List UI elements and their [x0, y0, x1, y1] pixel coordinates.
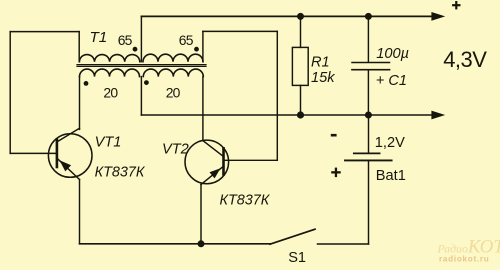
transformer T1 top-left winding (65 turns) [79, 55, 139, 62]
wire: VT1 base lead horizontal [10, 152, 56, 154]
junction dot: C1 top at + rail [365, 13, 372, 20]
junction dot: C1 bottom / battery at - rail [365, 112, 372, 119]
capacitor C1 lead top [367, 16, 369, 61]
svg-text:20: 20 [166, 85, 181, 101]
svg-text:R1: R1 [311, 55, 330, 71]
node: + output rail [141, 15, 431, 17]
junction dot: R1 top at + rail [297, 13, 304, 20]
wire: VT2 emitter down [200, 185, 202, 244]
transformer T1 top-right winding (65 turns) [143, 54, 203, 61]
wire: left rail vertical to VT1 base [9, 32, 11, 154]
wire: top-left winding end down to arcs [78, 32, 80, 62]
svg-text:КТ837К: КТ837К [220, 192, 271, 208]
transistor VT1 collector diagonal [58, 128, 80, 141]
svg-text:T1: T1 [90, 29, 108, 46]
wire: bottom emitter rail [80, 243, 271, 245]
svg-text:radiokot.ru: radiokot.ru [439, 255, 489, 264]
minus sign: battery top [331, 134, 337, 137]
transistor VT2 emitter arrow (PNP, points to base) [210, 168, 221, 178]
wire: horizontal from top winding to VT2 base drop [203, 30, 277, 32]
phase dot: top-right winding [194, 47, 199, 52]
battery Bat1 lead top [368, 115, 370, 153]
resistor R1 lead top [300, 16, 302, 47]
capacitor C1 plate bottom [352, 69, 390, 71]
phase dot: top-left winding [133, 47, 138, 52]
svg-text:VT1: VT1 [95, 134, 122, 150]
wire: top winding centre tap up to + rail [140, 16, 142, 61]
transistor VT2 body circle [185, 140, 229, 184]
arrowhead: - output [431, 111, 445, 120]
node: - output rail [141, 114, 431, 116]
wire: bottom-left winding to VT1 collector [79, 77, 81, 130]
transistor VT2 emitter diagonal [201, 167, 223, 185]
svg-text:1,2V: 1,2V [375, 135, 405, 151]
svg-text:15k: 15k [311, 70, 335, 86]
transistor VT1 emitter arrow (PNP, points to base) [60, 160, 72, 171]
transistor VT1 body circle [48, 134, 92, 178]
wire: VT2 base lead horizontal [224, 159, 277, 161]
capacitor C1 lead bottom [367, 71, 369, 116]
transformer T1 bottom-right winding (20 turns) [143, 69, 203, 76]
svg-text:20: 20 [103, 85, 118, 101]
capacitor C1 plate top [352, 62, 390, 64]
transistor VT1 emitter diagonal [58, 159, 80, 180]
switch S1 lever [270, 229, 315, 244]
phase dot: bottom-left winding [84, 81, 89, 86]
wire: bottom winding centre tap down to - rail [140, 77, 142, 115]
arrowhead: + output [431, 12, 445, 21]
wire: top-right winding end up [202, 31, 204, 61]
wire: left feedback loop (top horizontal at y=31.6) [10, 31, 79, 33]
resistor R1 body [292, 47, 308, 85]
plus sign: top right output [452, 4, 460, 6]
svg-text:4,3V: 4,3V [443, 47, 487, 72]
transformer T1 core [77, 65, 206, 67]
transistor VT2 collector diagonal [203, 141, 223, 156]
svg-text:S1: S1 [288, 250, 306, 266]
svg-text:+ C1: + C1 [376, 73, 407, 89]
wire: VT1 emitter down [79, 180, 81, 244]
junction dot: R1 bottom at - rail [297, 111, 304, 118]
svg-text:КТ837К: КТ837К [95, 165, 146, 181]
battery Bat1 lead bottom [368, 161, 370, 244]
svg-text:65: 65 [179, 32, 194, 48]
resistor R1 lead bottom [300, 85, 302, 115]
battery Bat1 long plate (positive) [345, 159, 392, 161]
phase dot: bottom-right winding [144, 80, 149, 85]
battery Bat1 short plate (negative) [354, 152, 380, 154]
svg-text:VT2: VT2 [162, 142, 189, 158]
wire: bottom-right winding to VT2 collector (crosses - rail, no dot) [202, 77, 204, 141]
svg-text:Bat1: Bat1 [376, 168, 406, 184]
svg-text:100µ: 100µ [376, 46, 409, 62]
switch S1 right contact wire [318, 243, 369, 245]
plus sign: battery bottom [331, 171, 341, 173]
transistor VT1 base bar [56, 139, 59, 167]
wire: VT2 base vertical drop [276, 31, 278, 160]
svg-text:65: 65 [118, 32, 133, 48]
transformer T1 bottom-left winding (20 turns) [80, 69, 140, 76]
junction dot: VT2 emitter at bottom rail [198, 240, 205, 247]
transistor VT2 base bar [222, 148, 225, 174]
